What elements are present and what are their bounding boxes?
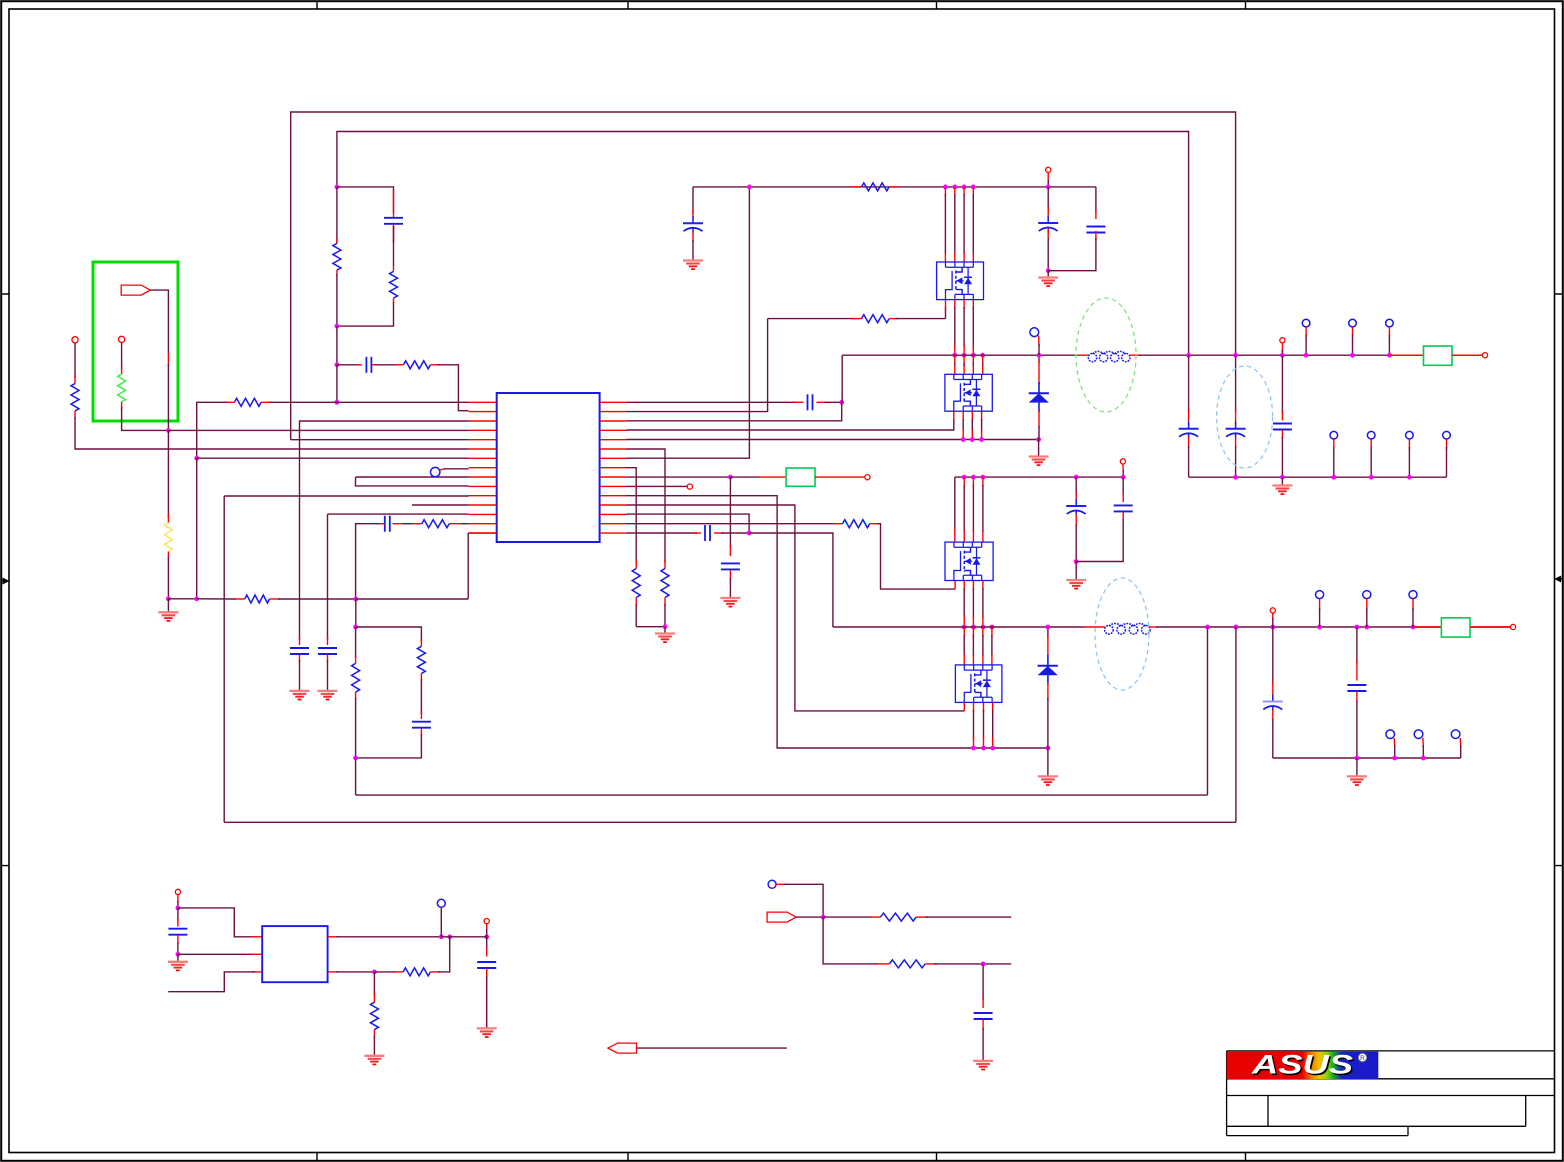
pin circle P4 out1 sense bbox=[1280, 338, 1285, 343]
wire Q3 drain verticals bbox=[954, 477, 956, 487]
wire fb to out node bbox=[438, 937, 450, 972]
resistor R14 bbox=[664, 560, 666, 569]
wire Q3 source verticals to rail2 bbox=[963, 581, 965, 591]
wire reg gnd to pin2 bbox=[178, 953, 255, 955]
capacitor C22 (rowB) bbox=[982, 964, 984, 1000]
wire C1 to R2v bbox=[393, 226, 395, 266]
node VIN2 cap junction bbox=[1074, 475, 1079, 480]
resistor R7 (left column) bbox=[74, 343, 76, 378]
wire row3 long left corner down bbox=[300, 421, 469, 640]
node compensation junction bbox=[335, 362, 340, 367]
wire reg feedback row bbox=[328, 971, 338, 973]
test point circles TP10-TP12 on rail2 bbox=[1316, 591, 1324, 599]
node rail2 out junctions bbox=[1205, 625, 1210, 630]
capacitor C9 (VIN1 bulk) bbox=[1047, 187, 1049, 210]
wire boot2 to rail2 bbox=[749, 533, 833, 627]
wire P8 to VIN2 rail bbox=[1122, 464, 1124, 472]
wire Q2 source verticals to pgnd1 bbox=[962, 411, 964, 421]
node VID junction bbox=[166, 428, 171, 433]
connector J2 (mid) bbox=[786, 468, 815, 486]
capacitor C4 (to gnd) bbox=[327, 637, 329, 645]
signal flag F3 (large, left-pointing) bbox=[608, 1043, 637, 1053]
pin circle P6 bbox=[865, 475, 870, 480]
ellipse L1 highlight (green dashed) bbox=[1076, 298, 1136, 412]
wire comp chain left bbox=[337, 364, 360, 366]
resistor R16 (gate3) bbox=[843, 520, 870, 528]
ground G11 bbox=[1075, 562, 1077, 581]
wire row7 to VIN vertical bbox=[627, 187, 750, 458]
wire gate1 run bbox=[768, 318, 855, 320]
pin circle P3 VIN1 bbox=[1046, 167, 1051, 172]
capacitor C16 (VIN2 bulk) bbox=[1075, 477, 1077, 496]
wire green resistor to node bbox=[122, 407, 169, 430]
wire row13 corner to row15 bbox=[627, 514, 750, 533]
node rail2 diode junction bbox=[1046, 625, 1051, 630]
wire VIN2 rail bbox=[955, 476, 1123, 478]
wire Q4 source verticals to pgnd2 bbox=[973, 702, 975, 712]
test point circle TP16 reg out bbox=[437, 899, 445, 907]
node rail1 pins bbox=[952, 353, 957, 358]
wire bus2 long bottom bbox=[224, 821, 1236, 823]
capacitor C5 (to gnd) bbox=[299, 637, 301, 645]
wire row12 to gate4 bbox=[627, 505, 965, 711]
wire rail1 left end down to boot node bbox=[841, 355, 843, 402]
wire row5 feed from bus A bbox=[291, 439, 469, 441]
capacitor C13 (out1 ceramic) bbox=[1281, 355, 1283, 414]
node fb2 top junction bbox=[353, 625, 358, 630]
wire rail2 to bus1 bbox=[1207, 627, 1209, 795]
ground G13 bbox=[177, 954, 179, 962]
node VIN2 junction bbox=[1121, 475, 1126, 480]
wire row2 to gate1 level bbox=[627, 319, 768, 412]
node R14/R15 gnd junction bbox=[663, 624, 668, 629]
resistor R19 (rowA) bbox=[881, 913, 917, 921]
resistor R4 (row1 series) bbox=[261, 401, 271, 403]
regulator U2 bbox=[262, 926, 327, 982]
ground G3 bbox=[290, 691, 310, 700]
ground G2 bbox=[318, 691, 338, 700]
pin circle P12 reg out bbox=[484, 919, 489, 924]
wire gate3 run bbox=[877, 524, 955, 589]
capacitor C15 (bootstrap 2) bbox=[705, 525, 710, 541]
capacitor C2 (series comp) bbox=[366, 357, 371, 373]
wire row1 left corner down bbox=[197, 402, 227, 458]
ellipse out1 caps highlight (blue dashed) bbox=[1217, 366, 1273, 468]
svg-text:ASUS: ASUS bbox=[1251, 1050, 1353, 1080]
node rowB cap junction bbox=[981, 962, 986, 967]
capacitor C11 (out1 bulk a) bbox=[1188, 355, 1190, 412]
wire bottom-left resistor row bbox=[168, 598, 196, 600]
wire boot1 node to row3 bbox=[627, 402, 842, 421]
resistor R11 (fb2 left) bbox=[355, 627, 357, 658]
wire reg output bbox=[328, 936, 338, 938]
wire row15 left corner bbox=[468, 532, 497, 534]
node VIN1/vertical junction bbox=[747, 185, 752, 190]
resistor R2 (right branch) bbox=[393, 266, 395, 271]
wire VIN1 corner to cap C8 bbox=[692, 187, 694, 213]
ellipse L2 highlight (blue dashed) bbox=[1095, 578, 1149, 690]
capacitor C21 (reg out) bbox=[486, 937, 488, 950]
wire row8 from circle bbox=[440, 469, 446, 470]
node flag junction bbox=[821, 915, 826, 920]
controller IC U1 bbox=[497, 393, 600, 542]
wire flag2 to node bbox=[796, 916, 823, 918]
wire pgnd1 row5 bbox=[627, 439, 1039, 441]
pin circle P8 VIN2 bbox=[1120, 459, 1125, 464]
signal flag F2 bbox=[767, 912, 796, 922]
wire Q1 source verticals to rail1 bbox=[954, 300, 956, 309]
ground G5 bbox=[1038, 440, 1040, 457]
inductor L1 (phase1) bbox=[1077, 354, 1089, 356]
ground G16 bbox=[973, 1061, 993, 1070]
wire row15 bootstrap2 bbox=[627, 532, 698, 534]
wire row11 to pgnd2 bbox=[627, 496, 965, 748]
resistor R9 (bottom row) bbox=[245, 595, 270, 603]
transistor Q4 (low-side phase2) bbox=[955, 665, 1002, 703]
node row7 feed junction bbox=[194, 456, 199, 461]
wire rowA to resistor bbox=[823, 916, 872, 918]
wire R7 to U1 row6 bbox=[75, 417, 469, 449]
wire TP17 to node bbox=[776, 883, 786, 885]
node gnd rail junctions bbox=[1233, 475, 1238, 480]
wire switch rail1 bbox=[842, 354, 1076, 356]
left border arrow marker bbox=[1, 580, 6, 582]
node reg input junction bbox=[176, 906, 181, 911]
node fb junction bbox=[372, 970, 377, 975]
node x196.7 bottom bbox=[194, 596, 199, 601]
node row1 junction bbox=[335, 400, 340, 405]
wire row10 to pin circle bbox=[627, 485, 688, 487]
connector J3 output2 bbox=[1413, 626, 1441, 628]
wire row6 to R14 gnd bbox=[627, 449, 666, 563]
wire row9-row10 left link bbox=[356, 476, 469, 478]
node Q1 drain pins on VIN1 bbox=[943, 185, 948, 190]
signal flag VID input bbox=[121, 285, 150, 295]
wire reg out to P12 bbox=[441, 936, 486, 938]
node bootstrap2 junction bbox=[747, 531, 752, 536]
node diode2 bottom junction bbox=[1046, 746, 1051, 751]
wire vertical x196.7 to bottom row bbox=[196, 458, 198, 599]
wire row8 to R15 gnd bbox=[627, 468, 637, 563]
wire row1 from resistor R4 bbox=[337, 401, 469, 403]
wire Q4 drain verticals bbox=[963, 627, 965, 637]
inductor L2 (phase2) bbox=[1085, 626, 1105, 628]
ground G12 bbox=[1356, 758, 1358, 776]
U1 left pin stubs 1-15 bbox=[469, 402, 497, 533]
capacitor C19 (out2 ceramic) bbox=[1356, 627, 1358, 663]
capacitor C7 (bootstrap 1) bbox=[808, 394, 813, 410]
wire fb2 right branch top bbox=[356, 627, 422, 642]
green highlight box bbox=[93, 262, 178, 421]
test point circle TP8 row8 bbox=[431, 467, 440, 476]
wire bus1 long bottom bbox=[356, 794, 1208, 796]
capacitor C8 (VIN decouple) bbox=[692, 210, 694, 218]
right border arrow marker bbox=[1558, 578, 1563, 580]
pin circle P11 reg input bbox=[175, 889, 180, 894]
capacitor C17 (VIN2 ceramic) bbox=[1122, 477, 1124, 496]
wire Q2 gate to row4 bbox=[953, 411, 955, 421]
wire gate1 pin stub bbox=[945, 307, 947, 319]
wire rail2 to bus2 bbox=[1235, 627, 1237, 822]
pin circle P7 row10 bbox=[687, 484, 692, 489]
capacitor C12 (out1 bulk b) bbox=[1235, 355, 1237, 412]
wire row14 chain corner down bbox=[356, 524, 379, 599]
wire flag3 out bbox=[637, 1047, 787, 1049]
ground G15 bbox=[364, 1056, 384, 1065]
node C16 bottom junction bbox=[1074, 559, 1079, 564]
node diode1 bottom junction bbox=[1036, 437, 1041, 442]
resistor R10 (fb2 right) bbox=[420, 639, 422, 646]
connector J1 output1 bbox=[1389, 354, 1423, 356]
ground G1 bbox=[167, 599, 169, 613]
wire fb2 vertical bbox=[355, 599, 357, 627]
ground G14 bbox=[477, 1028, 497, 1037]
node divider bottom junction bbox=[335, 324, 340, 329]
node row9 bypass junction bbox=[728, 475, 733, 480]
ground G6 bbox=[1047, 271, 1049, 278]
ground G9 bbox=[720, 598, 740, 607]
wire C2 to R3 bbox=[375, 364, 398, 366]
capacitor C20 (reg in) bbox=[177, 908, 179, 921]
ground G7 bbox=[1281, 477, 1283, 485]
resistor R18 (reg fb low) bbox=[373, 972, 375, 996]
ground G10 bbox=[1047, 748, 1049, 776]
wire flag to vertical bbox=[150, 290, 168, 353]
ground G8 bbox=[664, 627, 666, 634]
resistor R5 (green) in box bbox=[121, 343, 123, 370]
wire R15 to gnd node bbox=[636, 626, 665, 628]
wire row14 comp2 chain bbox=[461, 523, 469, 525]
node rail2 pins bbox=[962, 625, 967, 630]
test point circle TP17 bbox=[768, 880, 776, 888]
transistor Q1 (high-side phase1) bbox=[937, 262, 984, 300]
pin circle P2 left column bbox=[72, 337, 78, 343]
node reg gnd junction bbox=[176, 952, 181, 957]
wire fb2 right bottom bbox=[356, 734, 422, 758]
wire pgnd2 row bbox=[964, 747, 1048, 749]
wire out1 gnd rail bbox=[1189, 476, 1447, 478]
wire row11 from bus2 vertical bbox=[224, 495, 468, 497]
node reg out junctions bbox=[439, 934, 444, 939]
wire reg pin3 feed bbox=[252, 971, 262, 973]
wire reg input to pin1 bbox=[178, 908, 255, 937]
pin circle P9 out2 sense bbox=[1270, 608, 1275, 613]
node C9 bottom junction bbox=[1046, 268, 1051, 273]
wire row1 to bootstrap cap C7 bbox=[627, 401, 798, 403]
ground G4 bbox=[683, 261, 703, 270]
test point circle TP1 switch1 bbox=[1030, 328, 1039, 337]
wire comp node down to row1 junction bbox=[336, 365, 338, 403]
wire VIN1 top rail bbox=[693, 186, 1096, 188]
resistor R20 (rowB) bbox=[889, 960, 925, 968]
wire Q4 gate stub bbox=[963, 702, 965, 711]
node out2 gnd junction bbox=[1355, 756, 1360, 761]
wire comp chain to U1 pin row2 bbox=[437, 365, 469, 411]
capacitor C3 (row14 series) bbox=[402, 523, 412, 525]
node pgnd2 pins bbox=[971, 746, 976, 751]
wire row13 corner vertical to cap bbox=[327, 514, 329, 640]
capacitor C18 (out2 bulk) bbox=[1272, 627, 1274, 684]
diode D1 (freewheel phase1) bbox=[1038, 355, 1040, 363]
test point circles TP5-TP8 on gnd rail bbox=[1330, 431, 1338, 439]
transistor Q2 (low-side phase1) bbox=[945, 374, 992, 411]
capacitor C14 (row9 bypass) bbox=[729, 477, 731, 548]
wire rowB out bbox=[934, 963, 1011, 965]
resistor R12 (gate1) bbox=[862, 315, 890, 323]
node out1 sense junction bbox=[1280, 353, 1285, 358]
transistor Q3 (high-side phase2) bbox=[945, 542, 993, 580]
pin circle P10 output2 bbox=[1510, 624, 1515, 629]
wire bus2 vertical bbox=[223, 496, 225, 822]
wire bus A top (VIN sense) bbox=[291, 112, 1236, 440]
test point circles TP13-TP15 out2 gnd bbox=[1386, 730, 1395, 739]
wire VOUT1 feedback bus B top bbox=[337, 132, 1189, 354]
wire row14 to gate3 resistor bbox=[627, 523, 837, 525]
wire row9 to green connector bbox=[627, 476, 731, 478]
wire VID node to U1 row4 bbox=[168, 429, 468, 431]
wire fb2 to bus1 bbox=[355, 758, 357, 795]
wire out2 bottom rail bbox=[1273, 757, 1461, 759]
wire switch rail2 bbox=[833, 626, 1085, 628]
resistor R8 (row14) bbox=[422, 520, 449, 528]
svg-text:R: R bbox=[1360, 1055, 1365, 1062]
title block frame bbox=[1227, 1051, 1555, 1136]
wire divider top to right branch bbox=[337, 187, 394, 213]
capacitor C1 (right branch top) bbox=[393, 190, 395, 217]
node VIN1 cap junction bbox=[1046, 185, 1051, 190]
resistor R13 (VIN1 series) bbox=[852, 186, 862, 188]
diode D2 (freewheel phase2) bbox=[1047, 627, 1049, 638]
node rail1 diode junction bbox=[1037, 353, 1042, 358]
wire rowA out bbox=[925, 916, 1011, 918]
node junction bus B / divider top bbox=[335, 185, 340, 190]
node bootstrap1 junction bbox=[839, 400, 844, 405]
wire Q1 drain verticals bbox=[944, 187, 946, 196]
test point circles TP2-TP4 on rail1 bbox=[1302, 319, 1310, 327]
wire rail2 output run bbox=[1156, 626, 1513, 628]
pin circle P5 output1 bbox=[1482, 353, 1487, 358]
node fb2 bottom junction bbox=[353, 756, 358, 761]
node output1 junctions bbox=[1186, 353, 1191, 358]
capacitor C6 (fb2 right) bbox=[420, 679, 422, 714]
wire row12 stub bbox=[412, 504, 469, 506]
wire Q2 drain verticals bbox=[954, 355, 956, 365]
node pgnd1 pins bbox=[961, 437, 966, 442]
capacitor C10 (VIN1 ceramic) bbox=[1095, 187, 1097, 213]
wire P11 to node bbox=[177, 895, 179, 904]
wire rail1 output run bbox=[1139, 354, 1485, 356]
resistor R15 bbox=[635, 560, 637, 569]
wire row7 feed bbox=[197, 457, 469, 459]
wire row13 left from corner bbox=[328, 513, 469, 515]
pin circle P1 in green box bbox=[119, 336, 125, 342]
wire right branch bottom bbox=[337, 302, 394, 326]
wire rowB down bbox=[823, 917, 878, 964]
resistor R3 (comp) bbox=[403, 361, 430, 369]
resistor R6 (yellow) to ground bbox=[167, 430, 169, 517]
U1 right pin stubs 16-30 bbox=[600, 402, 627, 533]
wire P3 to VIN1 bbox=[1047, 173, 1049, 183]
wire divider to compensation node bbox=[336, 326, 338, 365]
node phase2 fb top bbox=[353, 597, 358, 602]
resistor R17 (reg fb) bbox=[403, 968, 430, 976]
node yellow resistor bottom bbox=[166, 596, 171, 601]
resistor R1 (left branch) bbox=[336, 187, 338, 244]
wire bottom row to row15 corner bbox=[356, 598, 468, 600]
